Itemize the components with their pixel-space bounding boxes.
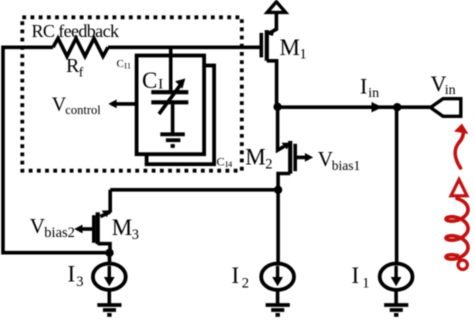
svg-text:bias2: bias2 <box>44 225 75 241</box>
svg-text:3: 3 <box>132 227 139 243</box>
svg-text:3: 3 <box>76 274 83 290</box>
svg-text:V: V <box>30 214 45 238</box>
svg-text:C: C <box>217 154 225 168</box>
svg-text:RC feedback: RC feedback <box>32 21 119 41</box>
svg-text:2: 2 <box>242 276 249 292</box>
svg-text:I: I <box>158 77 163 93</box>
svg-text:in: in <box>368 86 379 101</box>
svg-text:I: I <box>360 74 367 99</box>
svg-text:M: M <box>280 35 300 60</box>
svg-text:I: I <box>68 262 76 287</box>
svg-text:I: I <box>352 263 360 288</box>
svg-text:M: M <box>112 215 132 240</box>
svg-text:f: f <box>79 65 84 80</box>
svg-text:in: in <box>445 83 456 98</box>
svg-text:1: 1 <box>300 47 307 63</box>
svg-text:M: M <box>245 145 265 170</box>
svg-text:I: I <box>232 263 240 288</box>
svg-text:V: V <box>318 147 333 171</box>
svg-text:1: 1 <box>362 276 369 292</box>
svg-text:C: C <box>142 68 157 93</box>
svg-text:2: 2 <box>265 156 272 172</box>
svg-text:I1: I1 <box>124 62 131 71</box>
svg-text:control: control <box>65 103 101 117</box>
svg-text:bias1: bias1 <box>332 158 361 173</box>
svg-text:C: C <box>117 58 124 70</box>
svg-text:I4: I4 <box>225 159 233 169</box>
